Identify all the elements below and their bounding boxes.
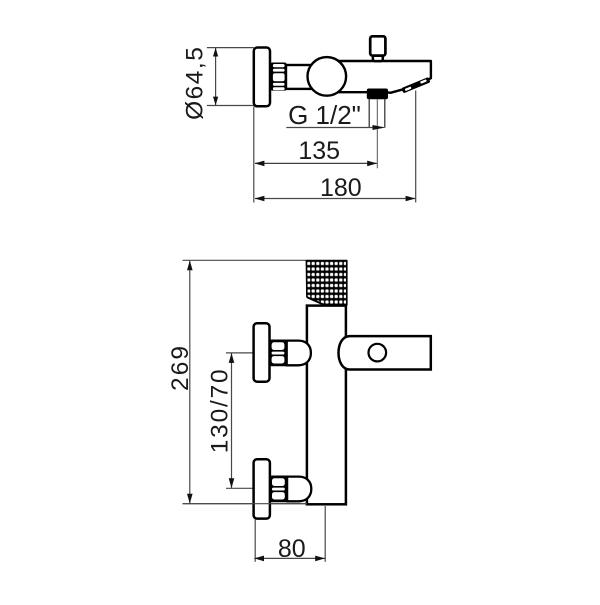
dim 80 arrow right — [315, 556, 325, 562]
dim 130/70 extension line bottom — [226, 487, 254, 489]
dim Ø64,5 extension line top — [207, 47, 254, 49]
dim 135 line — [255, 162, 377, 164]
diverter stem — [373, 54, 383, 62]
dim 269 line — [189, 261, 191, 504]
bottom connection connector to body — [287, 477, 311, 502]
dim 269 arrow up — [187, 261, 193, 271]
spout arm (front view) — [339, 336, 431, 369]
shower pipe wall right — [384, 99, 386, 128]
dim 130/70 arrow up — [229, 353, 235, 363]
dim 135 arrow left — [255, 161, 265, 167]
top connection hex nut — [270, 340, 287, 367]
hex nut (side view) — [271, 63, 287, 91]
dim 269 extension line top — [183, 259, 307, 261]
body column (front view) — [307, 306, 346, 505]
handle knob circle (side view) — [308, 57, 347, 96]
dim 80 arrow left — [254, 556, 264, 562]
re-draw 269 bottom extension over flange — [183, 503, 308, 505]
top connection flange — [254, 323, 270, 382]
dim 269 extension line bottom — [183, 503, 308, 505]
svg-text:G 1/2": G 1/2" — [288, 100, 361, 130]
dim Ø64,5 extension line bottom — [207, 105, 254, 107]
dim Ø64,5 arrow down — [213, 97, 218, 106]
dim 80 line — [254, 557, 325, 559]
G 1/2" leader arrow — [373, 125, 386, 130]
aerator strip on spout underside — [401, 77, 430, 93]
dim 135 arrow right — [367, 161, 377, 167]
dim Ø64,5 arrow up — [213, 48, 218, 57]
extension line spout tip (for 180) — [415, 91, 417, 203]
pipe axis line — [376, 99, 378, 168]
svg-text:130/70: 130/70 — [207, 368, 234, 454]
svg-text:Ø64,5: Ø64,5 — [182, 46, 209, 120]
shower pipe wall left — [368, 99, 370, 128]
wall flange (side view) — [254, 48, 270, 107]
bottom connection flange — [254, 459, 270, 518]
dim Ø64,5 line — [215, 48, 217, 105]
svg-text:80: 80 — [278, 535, 306, 563]
dim 130/70 extension line top — [226, 352, 254, 354]
diverter knob — [370, 36, 385, 55]
knurled knob (front view) — [306, 261, 346, 305]
extension line flange left (for 135/180) — [253, 107, 255, 203]
svg-text:180: 180 — [320, 174, 362, 202]
dim 130/70 line — [231, 353, 233, 488]
dim 80 extension line right — [324, 506, 326, 562]
shower outlet connector (black) — [367, 89, 388, 100]
dim 269 arrow down — [187, 494, 193, 504]
svg-text:269: 269 — [167, 344, 194, 391]
svg-text:135: 135 — [298, 137, 340, 165]
dim 180 arrow left — [255, 196, 265, 202]
shaft between nut and knob — [286, 65, 314, 89]
dim 130/70 arrow down — [229, 478, 235, 488]
dim 80 extension line left — [254, 520, 256, 562]
top connection connector to body — [287, 341, 311, 366]
body / spout (side view) — [316, 61, 431, 93]
G 1/2" leader line — [286, 127, 375, 129]
knob chamfer line — [308, 298, 325, 305]
dim 180 line — [255, 198, 415, 200]
bottom connection hex nut — [270, 476, 287, 503]
arm hole circle — [369, 344, 387, 362]
dim 180 arrow right — [406, 196, 416, 202]
